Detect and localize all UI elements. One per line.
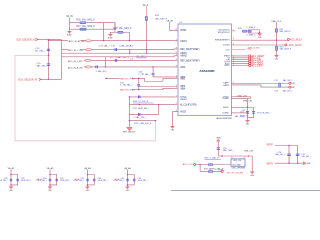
- crystal Y1 element: [249, 30, 252, 32]
- svg-text:R22 1_VAL_F: R22 1_VAL_F: [205, 157, 220, 160]
- junction vcap bottom: [247, 112, 249, 114]
- capacitor ladder mid: [138, 113, 140, 116]
- junction xtal corner: [259, 32, 261, 34]
- svg-text:TM_CH_OSCEN: TM_CH_OSCEN: [227, 172, 244, 174]
- capacitor C31: [55, 179, 58, 181]
- capacitor C28: [10, 179, 13, 181]
- resistor R18: [118, 31, 123, 33]
- wire row49-53 link: [129, 50, 131, 54]
- wire capp: [232, 82, 290, 84]
- svg-text:GND: GND: [86, 190, 90, 192]
- wire row56: [61, 56, 178, 57]
- junction R16/R17: [114, 28, 116, 30]
- svg-text:VDD OE: VDD OE: [233, 160, 242, 162]
- svg-text:REF_GND5V0: REF_GND5V0: [123, 132, 135, 134]
- wire group2 drop: [49, 170, 51, 175]
- svg-text:C-VAL_100_/: C-VAL_100_/: [134, 116, 147, 119]
- svg-text:AIN3: AIN3: [180, 66, 186, 69]
- wire dvdd join: [250, 97, 252, 99]
- wire R21 vertical: [138, 78, 140, 89]
- wire padoutP to pin INN3: [139, 78, 178, 81]
- junction group2 bottom: [49, 184, 51, 186]
- wire group3 drop: [87, 170, 89, 175]
- wire clksel stub: [232, 49, 246, 51]
- wire VA_IN vertical: [69, 18, 71, 31]
- svg-text:CLK(X): CLK(X): [223, 45, 230, 47]
- wire osc oe stub: [243, 156, 245, 159]
- svg-text:R18 VAL_NR1_F: R18 VAL_NR1_F: [113, 27, 132, 30]
- wire OR_P riser: [61, 40, 63, 80]
- svg-text:REFN: REFN: [267, 163, 274, 165]
- junction ladder botright: [155, 120, 157, 122]
- junction row66 x105: [105, 66, 107, 68]
- svg-text:7: 7: [176, 77, 177, 79]
- capacitor C20 series: [95, 65, 97, 68]
- junction x138 top: [138, 78, 140, 80]
- junction group1 top: [10, 174, 12, 176]
- label VAL NR2 underline: [136, 57, 146, 59]
- capacitor C19s series: [115, 59, 117, 62]
- wire refp leg: [288, 146, 290, 164]
- junction vcap top: [247, 106, 249, 108]
- svg-text:REF_P(EXTVREF): REF_P(EXTVREF): [180, 49, 199, 51]
- wire group2 left leg: [49, 175, 51, 187]
- sheet border bottom line: [171, 189, 320, 191]
- svg-text:CLK: CLK: [226, 49, 231, 51]
- offpage circle ADC_MCLK: [287, 38, 289, 40]
- wire osc vdd stub: [231, 156, 233, 159]
- ground group2: [48, 187, 53, 192]
- offpage circle ADC_DIN: [249, 59, 251, 61]
- junction refp x289: [288, 145, 290, 147]
- svg-text:0.1UF_NR_/: 0.1UF_NR_/: [0, 180, 8, 182]
- svg-text:VA_A: VA_A: [74, 178, 80, 181]
- pin stub INP4: [174, 85, 178, 87]
- svg-text:RESET: RESET: [180, 99, 188, 101]
- svg-text:DGND: DGND: [223, 98, 230, 100]
- wire row60 seg2: [84, 59, 86, 61]
- wire refn: [275, 162, 303, 164]
- capacitor C21 body: [279, 83, 281, 87]
- wire row66: [91, 66, 178, 68]
- junction ladder x158: [158, 104, 160, 106]
- svg-text:R20 +RN_100_F: R20 +RN_100_F: [134, 123, 152, 125]
- svg-text:VA_A3: VA_A3: [84, 167, 91, 170]
- svg-text:ADC_IN_A_IN2: ADC_IN_A_IN2: [68, 66, 83, 69]
- svg-text:REFP: REFP: [267, 144, 274, 146]
- resistor R22: [208, 164, 213, 166]
- wire x115 drop: [114, 23, 116, 33]
- svg-text:DNI: DNI: [291, 87, 295, 89]
- power arrow VBB: [216, 139, 220, 141]
- pin stub INN3: [174, 78, 178, 80]
- wire ADC_DRDY: [232, 65, 249, 67]
- svg-text:ADC_CLK: ADC_CLK: [183, 163, 194, 166]
- capacitor C28: [296, 154, 300, 156]
- ground group1: [9, 187, 14, 192]
- wire dgnd1: [232, 97, 251, 99]
- ground group4: [126, 187, 131, 192]
- wire oscB: [200, 170, 221, 172]
- capacitor C33: [93, 179, 96, 181]
- svg-text:GND: GND: [126, 190, 130, 192]
- wire C16 drop: [152, 67, 154, 73]
- capacitor C15: [47, 63, 50, 65]
- wire row66 seg2: [84, 66, 86, 68]
- svg-text:VA_A: VA_A: [114, 178, 120, 181]
- wire main input N seg3: [91, 40, 178, 42]
- wire VA_A vertical: [145, 16, 147, 53]
- svg-text:C_VBB_F: C_VBB_F: [246, 27, 256, 29]
- junction C14 tap: [48, 39, 50, 41]
- svg-text:8: 8: [176, 47, 177, 49]
- junction padoutP: [132, 78, 134, 80]
- pin stub INN4: [174, 87, 178, 89]
- pin stub INP3: [174, 76, 178, 78]
- offpage circle ADC_CLKIN: [285, 44, 287, 46]
- svg-text:VAL_NR_/: VAL_NR_/: [37, 65, 48, 68]
- wire mclk row: [129, 104, 178, 106]
- svg-text:REF_N(EXTVREF): REF_N(EXTVREF): [180, 60, 200, 62]
- wire vcap loop: [248, 107, 254, 117]
- svg-text:VBB: VBB: [216, 137, 221, 139]
- wire ladder rung114: [129, 113, 158, 115]
- wire sync row: [129, 96, 178, 98]
- svg-text:VAL_C24_/: VAL_C24_/: [235, 115, 246, 118]
- offpage circle oscB: [221, 170, 223, 172]
- wire group1 left leg: [10, 175, 12, 187]
- port arrow OR_P: [39, 78, 42, 80]
- svg-text:3: 3: [233, 38, 234, 40]
- svg-text:C_TM_VAL_/: C_TM_VAL_/: [120, 84, 133, 87]
- wire group4 drop: [127, 170, 129, 175]
- wire INP4 row: [139, 85, 178, 87]
- wire group1 loop: [11, 175, 18, 185]
- resistor R23: [208, 171, 213, 173]
- junction C16 top: [152, 66, 154, 68]
- wire main input N seg2: [80, 40, 85, 42]
- wire dgnd2: [232, 112, 248, 114]
- wire refp: [275, 146, 298, 164]
- wire group3 left leg: [87, 175, 89, 187]
- junction ladder botleft: [129, 120, 131, 122]
- wire row49 seg2: [80, 49, 86, 51]
- wire VBB vertical: [217, 142, 219, 156]
- wire oscA: [196, 164, 231, 166]
- junction bus C14: [48, 55, 50, 57]
- svg-text:OSC_4P096M: OSC_4P096M: [232, 168, 246, 170]
- svg-text:10UF_NR_/: 10UF_NR_/: [98, 180, 108, 182]
- wire VA_A1 to pin AVDD: [170, 22, 178, 31]
- svg-text:C15: C15: [37, 63, 42, 65]
- svg-text:AC_VAL_/: AC_VAL_/: [35, 50, 45, 53]
- capacitor C16: [152, 73, 155, 75]
- wire padoutP to riser: [133, 77, 139, 79]
- svg-text:AVDD: AVDD: [180, 29, 186, 32]
- svg-text:VA_A1: VA_A1: [167, 19, 174, 22]
- svg-text:AVSS: AVSS: [180, 110, 186, 113]
- svg-text:+C17_VAL_/: +C17_VAL_/: [98, 45, 110, 48]
- wire row60: [91, 59, 178, 61]
- junction x103 tap: [103, 40, 105, 42]
- svg-text:10UF_NR_/: 10UF_NR_/: [60, 180, 70, 182]
- svg-text:TP 1V8_NR_/: TP 1V8_NR_/: [257, 113, 271, 115]
- wire osc gnd vert: [251, 156, 253, 172]
- capacitor C29: [16, 179, 19, 181]
- svg-text:ADS1282IPWR: ADS1282IPWR: [217, 117, 232, 120]
- capacitor C34: [126, 179, 129, 181]
- capacitor C25: [246, 111, 249, 113]
- pin stub AVSS: [174, 111, 178, 113]
- wire ADC_SCLK: [232, 63, 249, 65]
- wire ladder rung120: [129, 120, 155, 122]
- pin stub R13: [232, 30, 236, 32]
- svg-text:VAL_NR_/: VAL_NR_/: [283, 79, 293, 82]
- svg-text:10UF_NR_/: 10UF_NR_/: [138, 180, 148, 182]
- offpage circle refclk: [194, 163, 196, 165]
- junction group2 top: [49, 174, 51, 176]
- ferrite bead FB4: [86, 66, 92, 68]
- svg-text:ADC_DRDY: ADC_DRDY: [251, 64, 264, 67]
- svg-text:AINN2: AINN2: [180, 55, 187, 58]
- wire VBB_CLK vertical: [276, 23, 278, 41]
- svg-text:2: 2: [233, 29, 234, 31]
- wire main input N seg1: [49, 40, 69, 42]
- wire ADC_DOUT: [232, 61, 249, 63]
- ground crystal: [258, 34, 263, 39]
- junction refn x289: [288, 162, 290, 164]
- wire padoutN: [133, 89, 139, 91]
- junction group1 bottom: [10, 184, 12, 186]
- svg-text:DVDD: DVDD: [223, 107, 229, 109]
- svg-text:C21: C21: [274, 80, 279, 82]
- oscillator U6 box: [231, 159, 245, 166]
- junction R18 tap: [129, 40, 131, 42]
- ground group3: [86, 187, 91, 192]
- wire padoutP left: [106, 77, 120, 79]
- junction refn x297: [297, 162, 299, 164]
- svg-text:1: 1: [176, 95, 177, 97]
- junction row53 x129: [129, 52, 131, 54]
- svg-text:10UF_NR_/: 10UF_NR_/: [21, 180, 31, 182]
- svg-text:GND: GND: [48, 190, 52, 192]
- wire dvdd1: [232, 96, 251, 98]
- wire group3 loop: [88, 175, 95, 185]
- junction group3 top: [87, 174, 89, 176]
- offpage circle ADC_DOUT: [249, 61, 251, 63]
- wire R16 row corner down: [114, 23, 116, 30]
- junction vbb rail left: [221, 155, 223, 157]
- capacitor C30: [49, 179, 52, 181]
- offpage circle ADC_SCLK: [249, 63, 251, 65]
- pin stub AVDD: [174, 29, 178, 31]
- ground R18 branch: [108, 34, 113, 39]
- label R19 underline: [133, 102, 154, 104]
- wire C15 branch: [48, 56, 50, 80]
- svg-text:1: 1: [176, 87, 177, 89]
- svg-text:+VBB_1V8: +VBB_1V8: [236, 95, 247, 97]
- wire dvdd2: [232, 106, 248, 108]
- svg-text:SCA_GEO(OR_N): SCA_GEO(OR_N): [16, 38, 36, 41]
- wire R16 row: [70, 22, 116, 24]
- wire R18 branch: [110, 32, 129, 40]
- svg-text:GND: GND: [307, 163, 312, 165]
- ferrite bead FB2: [86, 49, 92, 51]
- svg-text:ADC_IN_A1_IN1: ADC_IN_A1_IN1: [69, 40, 86, 43]
- resistor R14: [275, 46, 277, 50]
- wire row49b: [92, 48, 178, 51]
- capacitor C27: [287, 154, 291, 156]
- svg-text:+4E_NR_/: +4E_NR_/: [301, 156, 311, 158]
- svg-text:1_VAL_/: 1_VAL_/: [218, 168, 226, 171]
- wire ladder left leg: [128, 97, 130, 128]
- wire row49 seg1: [62, 49, 69, 51]
- junction vbb rail right: [248, 155, 250, 157]
- pin stub M_CLK(FLOPS): [174, 104, 178, 106]
- wire C16 to pin INP3: [153, 75, 178, 77]
- svg-text:R16 VAL_NR1_F: R16 VAL_NR1_F: [76, 18, 95, 21]
- junction padoutP x106: [105, 78, 107, 80]
- ground arrow REFN: [303, 162, 306, 165]
- wire clkin net: [232, 44, 285, 46]
- svg-text:AINP1: AINP1: [180, 40, 187, 43]
- wire bus detour: [15, 56, 155, 141]
- wire vbb rail: [218, 155, 252, 157]
- svg-text:VAL_NR_/: VAL_NR_/: [283, 90, 293, 93]
- svg-text:1: 1: [176, 39, 177, 41]
- wire ADC_CS: [232, 57, 249, 59]
- capacitor C35: [133, 179, 136, 181]
- ground below VA_IN: [67, 31, 72, 36]
- pin stub REF_P(EXTVREF): [174, 48, 178, 50]
- svg-text:4: 4: [176, 54, 177, 56]
- svg-text:C_TM_VAL_/: C_TM_VAL_/: [138, 73, 151, 76]
- wire group1 drop: [10, 170, 12, 175]
- svg-text:CTR 10UF_NR_/: CTR 10UF_NR_/: [132, 108, 149, 110]
- junction ladder topleft: [129, 96, 131, 98]
- svg-text:VA_A1: VA_A1: [8, 167, 15, 170]
- wire x103 vertical: [103, 23, 105, 41]
- ground AVSS: [171, 126, 176, 131]
- svg-text:ADC_CLKIN: ADC_CLKIN: [289, 44, 302, 47]
- ground osc: [250, 172, 255, 177]
- junction group4 top: [127, 174, 129, 176]
- svg-text:SPIO(RCLK): SPIO(RCLK): [218, 32, 230, 34]
- svg-text:R15: R15: [155, 15, 160, 17]
- svg-text:AGND: AGND: [67, 34, 72, 37]
- svg-text:GND: GND: [246, 124, 250, 126]
- svg-text:OSC: OSC: [247, 48, 252, 50]
- svg-text:6: 6: [176, 66, 177, 68]
- junction VA_A row53: [146, 52, 148, 54]
- svg-text:1: 1: [233, 82, 234, 84]
- capacitor ladder top: [138, 95, 140, 98]
- offpage circle ADC_DRDY: [249, 64, 251, 66]
- svg-text:C22: C22: [274, 91, 279, 93]
- svg-text:ADC_IN_3_IN2: ADC_IN_3_IN2: [68, 60, 83, 63]
- svg-text:SCA_GEO(OR_P): SCA_GEO(OR_P): [18, 79, 37, 82]
- svg-text:VAL_NR3_F: VAL_NR3_F: [280, 48, 292, 51]
- svg-text:DGND: DGND: [223, 113, 230, 115]
- offpage circle ADC_START: [249, 55, 251, 57]
- wire group4 loop: [128, 175, 135, 185]
- svg-text:R17 VAL_NR2_F: R17 VAL_NR2_F: [76, 25, 95, 28]
- label R22 underline: [205, 159, 221, 161]
- wire R14 vertical: [276, 40, 278, 55]
- resistor R15: [145, 16, 147, 20]
- svg-text:ADS1282R: ADS1282R: [199, 69, 215, 73]
- svg-text:C18: C18: [111, 46, 116, 48]
- svg-text:2: 2: [176, 103, 177, 105]
- svg-text:2: 2: [233, 65, 234, 67]
- svg-text:R-V: R-V: [130, 46, 134, 48]
- junction oscA: [199, 164, 201, 166]
- svg-text:CLK GND: CLK GND: [232, 165, 241, 167]
- wire C14 branch: [48, 40, 50, 56]
- ground R14: [275, 55, 280, 60]
- svg-text:M_CLK(FLOPS): M_CLK(FLOPS): [180, 105, 197, 107]
- svg-text:9: 9: [176, 59, 177, 61]
- capacitor C26b: [252, 111, 255, 113]
- wire vcap vertical: [247, 98, 249, 120]
- resistor R12: [275, 29, 277, 33]
- crystal Y1 box: [248, 30, 260, 33]
- svg-text:GND: GND: [9, 190, 13, 192]
- ferrite bead FB3: [85, 59, 91, 61]
- svg-text:C_VBB_C: C_VBB_C: [246, 35, 256, 37]
- pin stub AINP2: [174, 52, 178, 54]
- svg-text:2: 2: [176, 29, 177, 31]
- wire oscB drop: [199, 165, 201, 172]
- wire capn: [232, 85, 290, 87]
- svg-text:GND: GND: [275, 59, 279, 61]
- resistor R16: [80, 22, 86, 24]
- svg-text:C14: C14: [35, 48, 40, 50]
- wire OR_P: [41, 78, 61, 80]
- svg-text:VA_IN: VA_IN: [66, 15, 73, 18]
- port arrow OR_N: [36, 38, 39, 40]
- wire port OR_N: [38, 39, 48, 41]
- svg-text:INN3: INN3: [180, 79, 186, 81]
- wire mclk net: [232, 39, 288, 41]
- svg-text:ADC_IN_2_IN1: ADC_IN_2_IN1: [68, 49, 83, 52]
- svg-text:VA_A: VA_A: [143, 4, 149, 7]
- capacitor C32: [86, 179, 89, 181]
- capacitor C14: [47, 49, 50, 51]
- wire row53: [61, 52, 178, 54]
- junction ladder x139: [139, 104, 141, 106]
- ferrite bead FB1: [86, 40, 92, 42]
- junction VA_A row49: [146, 49, 148, 51]
- wire group4 left leg: [127, 175, 129, 187]
- junction group4 bottom: [127, 184, 129, 186]
- junction R12 bottom: [276, 39, 278, 41]
- resistor R21: [138, 84, 140, 86]
- wire row56 drop: [104, 57, 106, 67]
- svg-text:C-VAL_NR_/: C-VAL_NR_/: [96, 70, 108, 73]
- wire group2 loop: [50, 175, 57, 185]
- wire VA_A stub: [145, 7, 147, 17]
- svg-text:PWDN(RESET): PWDN(RESET): [215, 39, 230, 41]
- svg-text:VAL_NR3_F: VAL_NR3_F: [279, 30, 291, 33]
- capacitor C19: [217, 147, 220, 149]
- junction x138 bottom: [138, 89, 140, 91]
- IC U5 ADS1282R body: [178, 24, 232, 115]
- pin stub AIN3: [174, 66, 178, 68]
- svg-text:GND: GND: [258, 37, 262, 39]
- svg-text:VAL_NR1_F: VAL_NR1_F: [155, 17, 168, 20]
- offpage circle capp end: [289, 82, 291, 84]
